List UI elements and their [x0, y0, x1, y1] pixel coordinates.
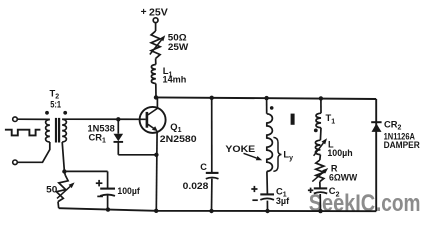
- svg-text:+: +: [141, 7, 147, 18]
- svg-text:50: 50: [46, 185, 57, 196]
- svg-text:25W: 25W: [168, 41, 189, 52]
- svg-text:SeekIC: SeekIC: [309, 190, 376, 217]
- svg-text:3µf: 3µf: [276, 195, 290, 206]
- svg-text:.com: .com: [376, 190, 421, 217]
- svg-text:0.028: 0.028: [183, 181, 210, 192]
- svg-text:100µh: 100µh: [327, 147, 352, 158]
- svg-text:5:1: 5:1: [50, 99, 61, 110]
- svg-text:100µf: 100µf: [117, 185, 140, 196]
- svg-text:YOKE: YOKE: [225, 143, 255, 154]
- svg-text:14mh: 14mh: [163, 73, 187, 84]
- svg-text:25V: 25V: [149, 7, 168, 18]
- svg-text:C: C: [200, 162, 207, 172]
- svg-text:2N2580: 2N2580: [160, 133, 197, 144]
- svg-text:DAMPER: DAMPER: [384, 139, 420, 150]
- svg-text:6ΩWW: 6ΩWW: [329, 172, 357, 183]
